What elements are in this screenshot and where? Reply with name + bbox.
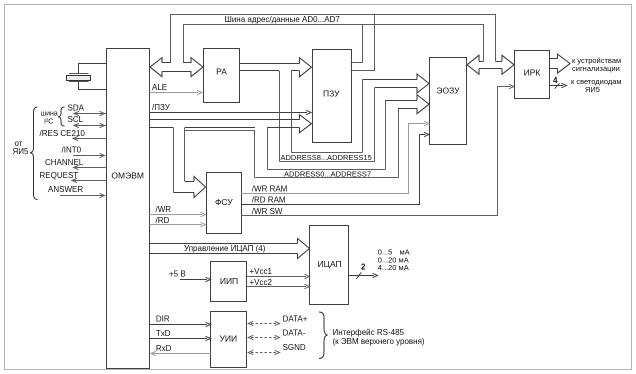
svg-text:/ПЗУ: /ПЗУ [152,103,171,112]
wire ИЦАП output with slash [349,275,374,277]
svg-text:SDA: SDA [68,103,85,112]
wire branch down from РА bus left side [279,71,281,162]
wire AD bus right outer vertical [495,14,497,61]
svg-text:(к ЭВМ верхнего уровня): (к ЭВМ верхнего уровня) [333,337,425,346]
wire ПЗУ data to AD bus outer [351,14,375,71]
svg-text:ИИП: ИИП [220,276,238,286]
wire branch to ФСУ right side [184,128,186,182]
bus ИРК output arrow head [558,54,571,73]
svg-text:ANSWER: ANSWER [48,185,83,194]
bus shaft into ЭОЗУ lower [385,100,417,102]
svg-text:/WR SW: /WR SW [252,207,283,216]
wire branch to address run right side [267,128,269,170]
svg-text:ADDRESS0...ADDRESS7: ADDRESS0...ADDRESS7 [284,169,371,178]
wire /INT0 [73,155,105,157]
svg-text:шина: шина [41,111,58,118]
wire /WR RAM to ЭОЗУ [241,124,425,194]
svg-text:Шина адрес/данные AD0...AD7: Шина адрес/данные AD0...AD7 [225,15,341,24]
block RA (РА) address register [204,49,240,103]
bus ЭОЗУ-ИРК double arrow left head [467,55,479,74]
bus ЭОЗУ-ИРК double arrow shaft [479,61,484,63]
wire branch to address run left side [254,130,256,177]
svg-text:/WR: /WR [156,205,172,214]
svg-text:2: 2 [361,262,366,271]
svg-text:SCL: SCL [68,115,84,124]
brace от ЯИ5 [30,107,38,200]
wire SCL bidirectional [74,125,107,127]
svg-text:DIR: DIR [156,315,170,324]
svg-text:ФСУ: ФСУ [215,197,233,207]
svg-text:/RD: /RD [156,216,170,225]
svg-text:ПЗУ: ПЗУ [323,88,340,98]
svg-text:+5 В: +5 В [169,269,186,278]
svg-text:/INT0: /INT0 [62,145,82,154]
svg-text:/RES CE210: /RES CE210 [40,129,86,138]
wire crystal top loop [79,64,107,74]
svg-text:/WR RAM: /WR RAM [252,184,288,193]
wire run up to ЭОЗУ lower arrow right side [398,108,400,177]
bus shaft into ЭОЗУ upper [363,79,418,81]
bus ОМЭВМ-ПЗУ shaft top [150,119,300,121]
bus run ADDRESS8..ADDRESS15 bottom line [279,161,375,163]
brace RS-485 [319,312,328,359]
wire SDA bidirectional [74,113,107,115]
svg-text:ОМЭВМ: ОМЭВМ [111,170,144,180]
svg-text:сигнализации: сигнализации [572,64,620,73]
wire branch down from РА bus right side [291,71,293,152]
bus РА-ПЗУ shaft top [240,63,300,65]
bus arrow head into ИЦАП [298,239,310,259]
bus arrow head into ФСУ [194,177,206,198]
wire branch to ФСУ left side [173,128,175,193]
block IIP (ИИП) power source [211,262,247,302]
net AD bus top line [171,14,496,16]
wire /WR SW to ИРК [241,87,510,216]
svg-text:/RD RAM: /RD RAM [252,195,286,204]
svg-text:ИРК: ИРК [524,68,541,78]
svg-text:DATA-: DATA- [283,329,306,338]
svg-text:TxD: TxD [156,329,171,338]
bus РА-ПЗУ shaft bottom with branch gap [240,70,280,72]
svg-text:ЭОЗУ: ЭОЗУ [436,86,460,96]
block PZU (ПЗУ) ROM [313,50,352,143]
wire SGND bidirectional dashed [251,352,277,354]
wire REQUEST [72,180,107,182]
bus run ADDRESS0..ADDRESS7 top line [267,169,385,171]
block IRK (ИРК) indication register [515,51,550,99]
bus run ADDRESS8..ADDRESS15 top line [291,152,362,154]
svg-text:ЯИ5: ЯИ5 [13,147,30,156]
wire /RD [150,224,203,226]
svg-text:I²C: I²C [44,119,53,126]
wire /ПЗУ select [150,112,308,114]
bus ЭОЗУ-ИРК double arrow right head [502,55,514,74]
bus Управление ИЦАП shaft [150,243,298,245]
wire RxD [151,353,211,355]
block EOZU (ЭОЗУ) RAM [430,58,467,145]
bus ОМЭВМ-ПЗУ arrow head into ПЗУ [300,115,312,133]
bus into ФСУ shaft [173,192,194,194]
wire /WR [150,214,203,216]
wire bridge between branch channels [185,130,255,132]
net AD bus bottom line [184,24,484,26]
wire ИРК to LEDs with slash [550,85,564,87]
svg-text:РА: РА [216,67,227,77]
bus ИРК output shaft [550,58,558,60]
svg-text:SGND: SGND [283,343,306,352]
bus ОМЭВМ-РА double arrow right head [191,58,203,77]
wire +Vcc1 [247,276,306,278]
bus ОМЭВМ-РА double arrow left head [150,58,162,77]
block OMEVM (ОМЭВМ) single-chip microcomputer [107,49,150,369]
svg-text:REQUEST: REQUEST [40,171,79,180]
bus run ADDRESS0..ADDRESS7 bottom line [255,177,398,179]
svg-text:+Vcc2: +Vcc2 [250,278,273,287]
wire DATA+ bidirectional dashed [251,323,277,325]
wire ANSWER [60,195,105,197]
svg-text:DATA+: DATA+ [283,315,308,324]
wire +5 В into ИИП [180,279,207,281]
crystal resonator plates and body [69,73,89,75]
wire run up to ЭОЗУ upper arrow left side [362,80,364,153]
brace шина I2C [58,107,65,126]
bus arrow head into ЭОЗУ lower [417,95,429,114]
wire CHANNEL [74,167,107,169]
svg-text:4: 4 [553,76,558,85]
wire run up to ЭОЗУ lower arrow left side [385,100,387,169]
bus arrow head into ЭОЗУ upper [417,74,429,93]
wire AD bus left outer vertical [170,14,172,63]
wire /RD RAM to ЭОЗУ [241,135,425,205]
block UII (УИИ) interface unit [211,312,247,368]
svg-text:4...20 мА: 4...20 мА [378,263,409,272]
wire DATA- bidirectional dashed [251,337,277,339]
svg-text:Интерфейс RS-485: Интерфейс RS-485 [333,328,405,337]
bus РА-ПЗУ arrow head into ПЗУ [300,58,312,77]
bus ОМЭВМ-РА double arrow shaft [162,62,171,64]
svg-text:ЯИ5: ЯИ5 [585,85,600,94]
wire TxD [150,338,207,340]
wire crystal bottom loop [79,82,107,90]
svg-text:+Vcc1: +Vcc1 [250,267,273,276]
wire +Vcc2 [247,286,306,288]
block FSU (ФСУ) control signal generator [207,173,242,234]
wire AD bus left inner vertical [183,24,185,63]
svg-text:RxD: RxD [156,344,172,353]
bus ОМЭВМ-ПЗУ shaft bottom with branch gaps [150,127,174,129]
wire DIR [150,324,207,326]
wire /RES CE210 [73,138,107,140]
svg-text:Управление ИЦАП (4): Управление ИЦАП (4) [184,244,266,253]
svg-text:ADDRESS8...ADDRESS15: ADDRESS8...ADDRESS15 [281,153,372,162]
wire ALE [150,92,199,94]
wire ПЗУ data to AD bus inner [351,24,363,63]
svg-text:ИЦАП: ИЦАП [318,259,342,269]
block ICAP (ИЦАП) DAC interface [310,226,349,305]
svg-text:УИИ: УИИ [219,334,237,344]
wire AD bus right inner vertical [483,24,485,61]
svg-text:ALE: ALE [152,83,167,92]
wire run up to ЭОЗУ upper arrow right side [374,88,376,162]
